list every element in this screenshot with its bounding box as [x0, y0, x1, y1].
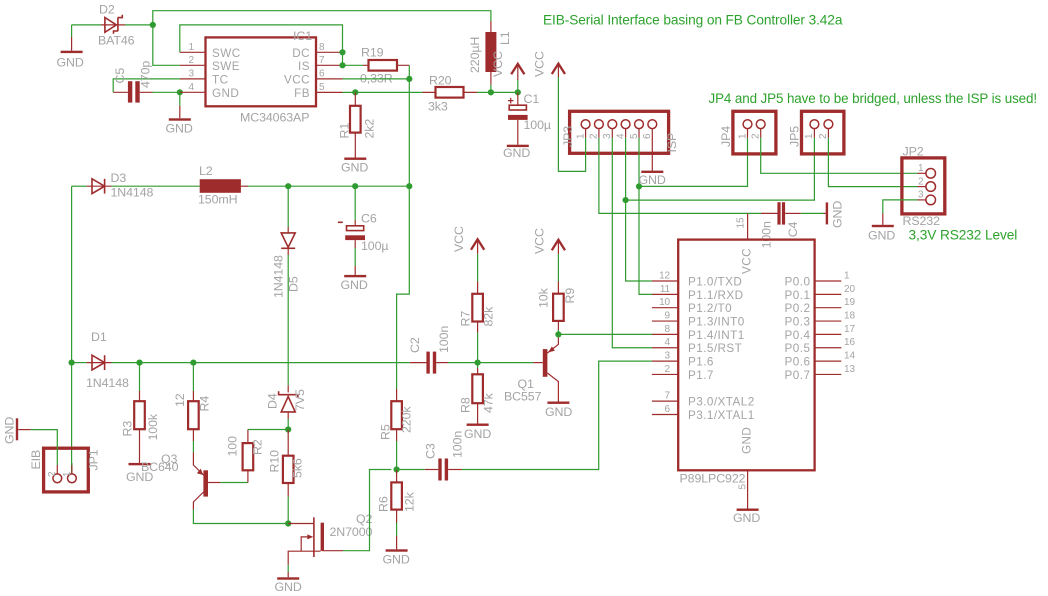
svg-text:R10: R10: [268, 450, 282, 473]
svg-text:C5: C5: [113, 68, 127, 84]
wire left vertical: [71, 186, 73, 474]
svg-text:C3: C3: [424, 443, 438, 459]
svg-text:JP1: JP1: [87, 449, 101, 470]
pin 13 P0.7: [815, 373, 842, 375]
wire jog down to R5: [397, 186, 410, 389]
svg-text:4: 4: [189, 82, 195, 93]
svg-text:8: 8: [319, 42, 325, 53]
svg-text:1: 1: [189, 42, 195, 53]
svg-text:7: 7: [319, 55, 325, 66]
svg-text:3: 3: [918, 190, 924, 201]
svg-text:18: 18: [844, 311, 855, 322]
svg-text:13: 13: [844, 364, 855, 375]
ground G7 (under Q2): [277, 577, 299, 579]
svg-text:GND: GND: [868, 229, 895, 243]
svg-text:2: 2: [751, 133, 762, 139]
svg-text:R9: R9: [563, 288, 577, 304]
svg-text:6: 6: [642, 133, 653, 139]
svg-text:ISP: ISP: [665, 133, 679, 153]
svg-text:GND: GND: [275, 580, 302, 594]
wire JP2.3 to GND: [883, 200, 918, 214]
svg-text:470p: 470p: [139, 61, 153, 88]
svg-text:150mH: 150mH: [198, 193, 237, 207]
wire pin6 VCC row: [343, 78, 410, 80]
pin 3 TC: [180, 78, 206, 80]
svg-text:VCC: VCC: [741, 248, 754, 274]
svg-text:JP4: JP4: [719, 126, 733, 147]
svg-text:20: 20: [844, 284, 855, 295]
svg-text:EIB: EIB: [29, 450, 43, 470]
wire JP3.1 to VCC: [585, 129, 587, 138]
pin 1 SWC: [180, 51, 206, 53]
svg-text:C1: C1: [524, 92, 540, 106]
pin 14 P0.6: [815, 360, 842, 362]
svg-text:100n: 100n: [437, 326, 451, 353]
junction DC pin8: [339, 49, 345, 55]
wire JP4.1 branch: [639, 138, 748, 187]
svg-text:2: 2: [665, 364, 671, 375]
op-amp IC1 MC34063AP box: [206, 37, 317, 106]
transistor Q1 BC557: [533, 362, 543, 364]
wire JP4.2 to JP2.1: [760, 129, 762, 138]
svg-text:14: 14: [844, 351, 855, 362]
svg-text:12: 12: [659, 271, 670, 282]
svg-text:100n: 100n: [760, 221, 774, 248]
svg-text:GND: GND: [341, 278, 368, 292]
capacitor C1: [517, 92, 519, 105]
capacitor C2: [410, 362, 427, 364]
pin 6 P3.1/XTAL1: [652, 414, 678, 416]
junction R3 top: [136, 360, 142, 366]
svg-text:2: 2: [818, 133, 829, 139]
junction IS pin7: [339, 62, 345, 68]
wire FB row: [343, 91, 423, 93]
svg-text:GND: GND: [733, 511, 760, 525]
svg-text:VCC: VCC: [533, 228, 547, 254]
svg-text:L1: L1: [498, 31, 512, 45]
svg-text:3k3: 3k3: [428, 100, 448, 114]
svg-text:5: 5: [319, 82, 325, 93]
svg-text:2N7000: 2N7000: [330, 525, 373, 539]
ground G3 (under R1): [344, 158, 366, 160]
svg-text:3: 3: [189, 68, 195, 79]
svg-text:1: 1: [844, 271, 850, 282]
svg-text:2: 2: [189, 55, 195, 66]
svg-text:4: 4: [665, 337, 671, 348]
svg-text:GND: GND: [464, 427, 491, 441]
svg-text:3: 3: [602, 133, 613, 139]
wire D3 to L2: [112, 185, 200, 187]
pin 9 P1.3/INT0: [652, 320, 678, 322]
pin 18 P0.3: [815, 320, 842, 322]
capacitor C3: [397, 469, 425, 471]
svg-text:4: 4: [615, 133, 626, 139]
capacitor C4: [761, 212, 777, 214]
svg-text:3,3V RS232 Level: 3,3V RS232 Level: [909, 228, 1018, 243]
junction pin4 GND: [177, 89, 183, 95]
pin 4 GND: [180, 91, 206, 93]
svg-text:JP5: JP5: [788, 126, 802, 147]
pin 17 P0.4: [815, 333, 842, 335]
ground G8 (under R6): [386, 549, 408, 551]
svg-text:12: 12: [173, 393, 187, 407]
resistor R4: [192, 363, 194, 391]
resistor R3: [139, 363, 141, 391]
svg-text:100µ: 100µ: [361, 239, 388, 253]
svg-text:R1: R1: [338, 123, 352, 139]
diode D4 zener 7V5: [287, 385, 289, 392]
junction C6 top: [352, 183, 358, 189]
svg-text:1N4148: 1N4148: [86, 376, 129, 390]
svg-text:82k: 82k: [482, 306, 496, 327]
resistor R9: [557, 281, 559, 294]
transistor Q2 2N7000: [288, 523, 314, 525]
svg-text:11: 11: [660, 284, 671, 295]
svg-text:D2: D2: [99, 3, 115, 17]
wire JP3.5 to P1.1/RXD: [638, 129, 640, 138]
pin 2 P1.7: [652, 373, 678, 375]
svg-text:5: 5: [629, 133, 640, 139]
svg-text:C4: C4: [786, 221, 800, 237]
supply VCC2 arrow (above R7): [471, 239, 484, 249]
resistor R1: [354, 92, 356, 105]
wire JP3.2 to C4 row: [598, 129, 600, 138]
svg-text:GND: GND: [383, 553, 410, 567]
svg-text:P0.4: P0.4: [785, 329, 811, 342]
pin 12 P1.0/TXD: [652, 280, 678, 282]
svg-text:P0.0: P0.0: [785, 276, 811, 289]
svg-text:100k: 100k: [146, 413, 160, 440]
svg-text:GND: GND: [212, 87, 239, 100]
pin 7 IS: [316, 64, 343, 66]
svg-text:P0.6: P0.6: [785, 356, 811, 369]
wire JP3.4 to P1.0/TXD: [625, 129, 627, 138]
resistor R8: [477, 363, 479, 368]
wire Q2 drain up to R5/R6 row: [343, 470, 391, 551]
pin 8 P1.4/INT1: [652, 333, 678, 335]
svg-text:D4: D4: [266, 393, 280, 409]
svg-text:3: 3: [665, 351, 671, 362]
svg-text:1: 1: [804, 133, 815, 139]
svg-text:BAT46: BAT46: [98, 34, 135, 48]
wire IS to R19: [343, 64, 363, 66]
ground G1 (left of D2): [71, 25, 73, 37]
svg-text:P1.7: P1.7: [688, 369, 714, 382]
svg-text:100n: 100n: [451, 431, 465, 458]
resistor R7: [477, 281, 479, 293]
junction R9/Q1/P1.4: [555, 331, 561, 337]
svg-text:R4: R4: [198, 396, 212, 412]
svg-text:P1.0/TXD: P1.0/TXD: [688, 276, 742, 289]
svg-text:GND: GND: [741, 427, 754, 454]
svg-text:100µ: 100µ: [524, 118, 551, 132]
svg-text:12k: 12k: [403, 491, 417, 512]
ground G14 (under JP2.3): [872, 225, 894, 227]
svg-text:47k: 47k: [482, 392, 496, 413]
svg-text:6: 6: [319, 68, 325, 79]
svg-text:SWC: SWC: [212, 47, 241, 60]
inductor L2: [200, 179, 241, 193]
svg-text:5k6: 5k6: [291, 458, 305, 478]
svg-text:8: 8: [665, 324, 671, 335]
svg-text:R2: R2: [251, 439, 265, 455]
svg-text:P0.1: P0.1: [785, 289, 811, 302]
connector JP5: [802, 111, 844, 154]
svg-text:P1.6: P1.6: [688, 356, 714, 369]
connector JP1 EIB: [44, 448, 89, 492]
pin 7 P3.0/XTAL2: [652, 400, 678, 402]
svg-text:2: 2: [589, 133, 600, 139]
svg-text:16: 16: [844, 337, 855, 348]
svg-text:GND: GND: [166, 122, 193, 136]
ground G6 (under R3): [129, 463, 151, 465]
wire JP3.3 to RST: [611, 129, 613, 138]
svg-text:P3.1/XTAL1: P3.1/XTAL1: [688, 409, 755, 422]
svg-text:SWE: SWE: [212, 60, 240, 73]
svg-text:GND: GND: [503, 146, 530, 160]
svg-text:GND: GND: [57, 56, 84, 70]
junction at D2/SWE: [150, 22, 156, 28]
svg-text:7V5: 7V5: [293, 389, 307, 411]
ground G12 (JP3 pin6): [651, 129, 653, 171]
ground G2 (under IC1 pin4): [179, 92, 181, 106]
svg-text:D3: D3: [111, 171, 127, 185]
wire JP5.2 to JP2.2: [827, 129, 829, 138]
wire JP1 pin1 up: [71, 465, 73, 474]
diode D1: [87, 362, 112, 364]
svg-text:IS: IS: [298, 60, 310, 73]
svg-text:7: 7: [665, 391, 671, 402]
svg-text:VCC: VCC: [533, 51, 547, 77]
svg-text:19: 19: [844, 297, 855, 308]
svg-text:IC1: IC1: [293, 29, 312, 43]
pin 19 P0.2: [815, 307, 842, 309]
junction R4 top: [190, 360, 196, 366]
connector JP2 RS232: [902, 158, 945, 214]
pin 6 VCC: [316, 78, 343, 80]
svg-text:VCC: VCC: [452, 226, 466, 252]
resistor R6: [396, 470, 398, 483]
diode D5: [287, 186, 289, 227]
svg-text:2: 2: [918, 176, 924, 187]
wire R19 right down to GND net: [408, 65, 410, 186]
svg-text:P3.0/XTAL2: P3.0/XTAL2: [688, 396, 755, 409]
junction R2/D4/R10: [285, 426, 291, 432]
ground G10 (under Q1): [547, 402, 569, 404]
ground G11 (left of JP1): [18, 429, 31, 431]
svg-text:5: 5: [738, 484, 749, 490]
svg-text:R6: R6: [377, 496, 391, 512]
svg-text:2k2: 2k2: [363, 119, 377, 139]
svg-text:EIB-Serial Interface basing on: EIB-Serial Interface basing on FB Contro…: [543, 13, 843, 28]
resistor R20: [423, 91, 478, 93]
ground G13 (right of C4, rotated): [824, 212, 826, 214]
ground G9 (under R8): [467, 424, 489, 426]
wire JP5.1 branch: [626, 138, 815, 200]
junction D5 top: [285, 183, 291, 189]
svg-text:17: 17: [844, 324, 855, 335]
svg-text:RS232: RS232: [903, 214, 941, 228]
wire SWC to DC net: [180, 25, 343, 52]
svg-text:GND: GND: [3, 417, 17, 444]
pin 11 P1.1/RXD: [652, 293, 678, 295]
junction R19 net: [406, 183, 412, 189]
wire to P1.4: [558, 333, 652, 335]
wire top net SWC/D2 to L1: [153, 11, 491, 25]
svg-text:TC: TC: [212, 73, 228, 86]
supply VCC3 arrow (above R9): [552, 240, 565, 250]
IC U2 P89LPC922 box: [678, 240, 814, 471]
svg-text:R8: R8: [458, 397, 472, 413]
svg-text:P1.5/RST: P1.5/RST: [688, 342, 742, 355]
connector JP4: [733, 111, 776, 154]
pin 20 P0.1: [815, 293, 842, 295]
svg-text:220k: 220k: [400, 406, 414, 433]
junction R5/R6/C3: [394, 466, 400, 472]
svg-text:220µH: 220µH: [468, 37, 482, 73]
capacitor C5: [113, 79, 180, 92]
pin 1 P0.0: [815, 280, 842, 282]
svg-text:1: 1: [575, 133, 586, 139]
svg-text:GND: GND: [831, 201, 845, 228]
pin 5 FB: [316, 91, 343, 93]
svg-text:BC557: BC557: [504, 390, 542, 404]
wire GND net row 186: [72, 185, 87, 187]
supply VCC1 arrow: [511, 64, 524, 74]
junction R7/R8/base: [475, 360, 481, 366]
resistor R2: [247, 470, 249, 482]
svg-text:P0.7: P0.7: [785, 369, 811, 382]
svg-text:1N4148: 1N4148: [111, 186, 154, 200]
wire base row 362.6: [72, 362, 87, 364]
ground G4 (under C1): [507, 145, 529, 147]
svg-text:JP3: JP3: [561, 126, 575, 147]
capacitor C6: [354, 186, 356, 220]
svg-text:15: 15: [736, 217, 747, 228]
resistor R10: [287, 430, 289, 456]
svg-text:BC640: BC640: [141, 460, 179, 474]
svg-text:100: 100: [226, 436, 240, 457]
wire D1 to C2: [112, 362, 410, 364]
svg-text:GND: GND: [639, 173, 666, 187]
svg-text:VCC: VCC: [284, 73, 310, 86]
svg-text:6: 6: [665, 404, 671, 415]
svg-text:1N4148: 1N4148: [272, 255, 286, 298]
svg-text:2: 2: [47, 471, 58, 477]
svg-text:JP2: JP2: [903, 145, 924, 159]
svg-text:P0.5: P0.5: [785, 342, 811, 355]
svg-text:JP4 and JP5 have to be bridged: JP4 and JP5 have to be bridged, unless t…: [709, 91, 1038, 106]
wire C3 to P1.6: [462, 361, 652, 469]
svg-text:D1: D1: [91, 330, 107, 344]
wire D2 left: [72, 24, 101, 26]
svg-text:GND: GND: [341, 161, 368, 175]
svg-text:1: 1: [62, 471, 73, 477]
svg-text:DC: DC: [292, 47, 310, 60]
pin 2 SWE: [180, 64, 206, 66]
svg-text:C2: C2: [408, 337, 422, 353]
resistor R19: [363, 64, 409, 66]
transistor Q3 BC640: [192, 429, 194, 441]
ground G15 (under P89LPC922): [737, 509, 759, 511]
pin 15 VCC: [747, 213, 749, 239]
svg-text:1: 1: [737, 133, 748, 139]
pin 5 GND: [747, 470, 749, 508]
wire pin8 to pin7: [342, 52, 344, 65]
svg-text:R5: R5: [379, 424, 393, 440]
svg-text:R7: R7: [459, 311, 473, 327]
svg-text:R19: R19: [361, 46, 384, 60]
svg-text:D5: D5: [287, 276, 301, 292]
svg-text:10k: 10k: [537, 287, 551, 308]
inductor L1: [490, 21, 492, 32]
svg-text:10: 10: [659, 297, 670, 308]
svg-text:9: 9: [665, 311, 671, 322]
svg-text:C6: C6: [361, 212, 377, 226]
svg-text:P1.2/T0: P1.2/T0: [688, 302, 732, 315]
svg-text:P1.1/RXD: P1.1/RXD: [688, 289, 744, 302]
svg-text:P0.3: P0.3: [785, 316, 811, 329]
supply VCC4 arrow (ISP): [552, 64, 565, 74]
svg-text:FB: FB: [294, 87, 310, 100]
ground G5 (under C6): [344, 275, 366, 277]
junction Q2 gate: [285, 520, 291, 526]
svg-text:1: 1: [918, 163, 924, 174]
pin 4 P1.5/RST: [652, 347, 678, 349]
wire L2 to junctions: [248, 185, 409, 187]
svg-text:R3: R3: [121, 421, 135, 437]
svg-text:P1.3/INT0: P1.3/INT0: [688, 316, 745, 329]
svg-text:GND: GND: [545, 405, 572, 419]
pin 16 P0.5: [815, 347, 842, 349]
svg-text:P89LPC922: P89LPC922: [680, 472, 746, 486]
wire D2 right: [125, 24, 153, 26]
pin 8 DC: [316, 51, 343, 53]
resistor R5: [396, 389, 398, 401]
svg-text:MC34063AP: MC34063AP: [240, 111, 309, 125]
wire JP1 pin2 to GND: [56, 465, 58, 474]
svg-text:+: +: [508, 96, 514, 108]
svg-text:R20: R20: [429, 74, 452, 88]
svg-text:L2: L2: [199, 164, 213, 178]
svg-text:P0.2: P0.2: [785, 302, 811, 315]
svg-text:VCC: VCC: [491, 51, 505, 77]
diode D3: [87, 185, 112, 187]
connector JP3 ISP: [570, 111, 669, 153]
svg-text:P1.4/INT1: P1.4/INT1: [688, 329, 745, 342]
diode D2: [101, 24, 125, 26]
pin 10 P1.2/T0: [652, 307, 678, 309]
pin 3 P1.6: [652, 360, 678, 362]
wire to pin SWE: [153, 25, 180, 65]
